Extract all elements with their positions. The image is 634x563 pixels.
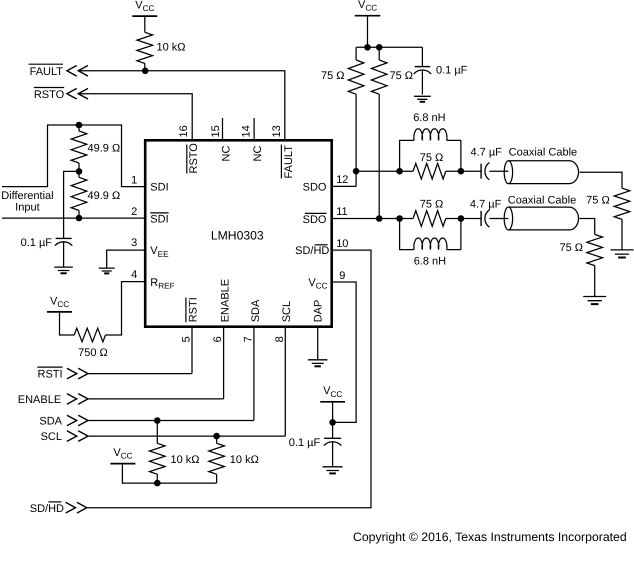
coaxial cable (SDO-) xyxy=(504,207,578,230)
junction VCC rail 1 xyxy=(364,44,371,51)
svg-text:4: 4 xyxy=(131,269,137,281)
svg-text:DAP: DAP xyxy=(313,300,325,323)
junction SCL pull-up tap xyxy=(213,433,220,440)
svg-text:SDI: SDI xyxy=(150,213,168,225)
input arrows SD/HD xyxy=(66,502,87,513)
pin 14 NC stub xyxy=(253,118,255,140)
svg-text:SDA: SDA xyxy=(39,416,62,428)
wire VCC to 10k resistor xyxy=(144,16,146,32)
wire SDO pull-up down to pin 12 xyxy=(355,94,357,186)
junction SDO- RL right xyxy=(458,215,465,222)
wire VCC rail for pull-ups xyxy=(122,464,216,484)
wire cap to ground xyxy=(332,442,334,466)
op-amp / IC U1 LMH0303 body xyxy=(145,140,332,326)
output arrows RSTO xyxy=(67,88,88,99)
junction pull-up rail xyxy=(154,480,161,487)
svg-text:FAULT: FAULT xyxy=(283,145,295,179)
resistor R 10 kOhm (SDA pull-up) xyxy=(150,443,166,474)
junction lower input / termination xyxy=(76,215,83,222)
wire FAULT to pin 13 xyxy=(78,71,285,141)
wire RSTI to pin 5 xyxy=(88,327,192,374)
svg-text:75 Ω: 75 Ω xyxy=(586,195,610,207)
resistor R 75 Ohm (SDO- termination) xyxy=(587,234,603,265)
wire cap to coax xyxy=(489,218,508,220)
inductor L 6.8 nH (SDO) xyxy=(400,140,415,171)
capacitor C 0.1 uF input midpoint xyxy=(56,237,72,239)
junction SDO node xyxy=(353,168,360,175)
svg-text:6: 6 xyxy=(212,336,224,342)
junction input top / R termination xyxy=(76,122,83,129)
svg-text:0.1 µF: 0.1 µF xyxy=(289,437,321,449)
capacitor C 0.1 uF (pull-up rail bypass) xyxy=(415,66,431,68)
svg-text:1: 1 xyxy=(131,174,137,186)
resistor R 10 kOhm (SCL pull-up) xyxy=(209,443,225,474)
ground (VEE) xyxy=(99,268,115,271)
svg-text:FAULT: FAULT xyxy=(30,66,64,78)
svg-text:7: 7 xyxy=(242,336,254,342)
svg-text:ENABLE: ENABLE xyxy=(18,394,61,406)
resistor 49.9 Ohm (upper termination) xyxy=(71,131,87,163)
junction VCC bypass node xyxy=(329,419,336,426)
svg-text:12: 12 xyxy=(336,174,348,186)
wire SDO- pull-up down to SDO- line xyxy=(378,94,380,218)
wire cap to ground xyxy=(421,71,423,95)
wire resistor to FAULT line xyxy=(144,63,146,70)
svg-text:8: 8 xyxy=(274,336,286,342)
wire coax to termination xyxy=(579,219,594,235)
wire VCC to node xyxy=(332,402,334,423)
ground (SDO- termination) xyxy=(583,297,606,301)
input arrows RSTI xyxy=(67,368,88,379)
junction SDO- node xyxy=(376,215,383,222)
svg-text:75 Ω: 75 Ω xyxy=(420,198,444,210)
svg-text:Input: Input xyxy=(15,201,39,213)
wire SDO- row from pin 11 xyxy=(332,218,413,220)
junction SDO RL left xyxy=(396,168,403,175)
svg-text:SCL: SCL xyxy=(281,301,293,322)
resistor R 10 kOhm (FAULT pull-up) xyxy=(137,32,153,63)
wire SCL to 10k xyxy=(216,436,218,443)
wire SDI input (lower) to pin 2 xyxy=(2,217,145,219)
resistor R 75 Ohm (SDO termination) xyxy=(614,188,630,219)
wire pin 3 VEE to ground xyxy=(107,250,146,268)
wire pin 12 stub xyxy=(332,185,356,187)
wire ENABLE to pin 6 xyxy=(88,327,224,399)
svg-text:Coaxial Cable: Coaxial Cable xyxy=(509,146,577,158)
svg-text:13: 13 xyxy=(271,125,283,137)
pin 15 NC stub xyxy=(222,118,224,140)
svg-text:Coaxial Cable: Coaxial Cable xyxy=(508,194,576,206)
wire cap to coax xyxy=(489,170,508,172)
ground (SDO termination) xyxy=(611,250,634,254)
junction SDO- RL left xyxy=(396,215,403,222)
svg-text:SDO: SDO xyxy=(303,182,327,194)
svg-text:49.9 Ω: 49.9 Ω xyxy=(88,143,121,155)
capacitor C 4.7 uF (SDO- AC coupling) xyxy=(480,211,482,226)
svg-text:75 Ω: 75 Ω xyxy=(321,70,345,82)
resistor 49.9 Ohm (lower termination) xyxy=(71,177,87,210)
svg-text:6.8 nH: 6.8 nH xyxy=(413,112,445,124)
svg-text:RSTI: RSTI xyxy=(187,297,199,322)
svg-text:3: 3 xyxy=(131,237,137,249)
ground (DAP) xyxy=(308,360,328,364)
svg-text:0.1 µF: 0.1 µF xyxy=(436,64,468,76)
wire SCL to pin 8 xyxy=(88,327,285,436)
resistor R 75 Ohm (SDO- series) xyxy=(413,211,446,227)
svg-text:ENABLE: ENABLE xyxy=(220,279,232,322)
junction termination midpoint xyxy=(76,168,83,175)
svg-text:RSTO: RSTO xyxy=(34,89,65,101)
wire termination to ground xyxy=(621,219,623,249)
wire SDI input (upper) to pin 1 xyxy=(2,125,145,187)
wire 10k to VCC rail xyxy=(156,474,158,483)
svg-text:10 kΩ: 10 kΩ xyxy=(230,454,259,466)
ground (rail bypass) xyxy=(414,96,431,99)
resistor R 75 Ohm (SDO pull-up) xyxy=(355,47,357,60)
svg-text:5: 5 xyxy=(181,336,193,342)
svg-text:75 Ω: 75 Ω xyxy=(420,152,444,164)
svg-text:LMH0303: LMH0303 xyxy=(211,229,264,243)
svg-text:SD/HD: SD/HD xyxy=(295,245,329,257)
wire midpoint to bypass cap xyxy=(64,171,79,238)
svg-text:4.7 µF: 4.7 µF xyxy=(470,198,502,210)
input arrows SDA xyxy=(67,415,88,426)
capacitor C 0.1 uF (VCC bypass) xyxy=(324,437,341,439)
wire VCC down xyxy=(367,16,369,48)
svg-text:NC: NC xyxy=(252,146,264,162)
resistor R 75 Ohm (SDO series) xyxy=(413,163,446,179)
cap 0.1uF top right xyxy=(421,47,423,66)
output arrows FAULT xyxy=(67,66,88,77)
wire cap to ground xyxy=(63,242,65,267)
coaxial cable (SDO) xyxy=(504,161,578,184)
svg-text:SDA: SDA xyxy=(250,299,262,322)
ground (VCC bypass) xyxy=(323,467,343,471)
wire pin 9 VCC xyxy=(332,282,356,422)
wire coax to termination xyxy=(579,172,622,188)
wire termination to ground xyxy=(594,266,596,297)
junction FAULT / 10k xyxy=(142,68,149,75)
power symbol VCC (RREF bias) xyxy=(47,311,72,313)
junction SDO RL right xyxy=(458,168,465,175)
power symbol VCC (pin 9 bypass) xyxy=(320,401,345,403)
wire VCC to 750 resistor xyxy=(60,312,75,335)
resistor R 750 Ohm (RREF) xyxy=(74,328,105,342)
svg-text:4.7 µF: 4.7 µF xyxy=(470,146,502,158)
svg-text:75 Ω: 75 Ω xyxy=(559,242,583,254)
junction VCC rail 2 xyxy=(376,44,383,51)
svg-text:49.9 Ω: 49.9 Ω xyxy=(88,190,121,202)
input arrows SCL xyxy=(67,431,88,442)
svg-text:NC: NC xyxy=(220,146,232,162)
svg-text:SCL: SCL xyxy=(41,431,62,443)
wire 750 resistor to pin 4 xyxy=(106,282,146,335)
svg-text:11: 11 xyxy=(336,206,347,218)
svg-text:Copyright © 2016, Texas Instru: Copyright © 2016, Texas Instruments Inco… xyxy=(353,530,627,544)
inductor L 6.8 nH (SDO-) xyxy=(400,219,415,250)
wire DAP to ground xyxy=(317,327,319,360)
wire node to cap xyxy=(332,422,334,438)
svg-text:10 kΩ: 10 kΩ xyxy=(171,454,200,466)
svg-text:75 Ω: 75 Ω xyxy=(390,70,414,82)
junction SDA pull-up tap xyxy=(154,417,161,424)
svg-text:SDI: SDI xyxy=(150,182,168,194)
svg-text:RSTI: RSTI xyxy=(38,369,63,381)
svg-text:RSTO: RSTO xyxy=(188,143,200,174)
power symbol VCC (10k pull-up, FAULT) xyxy=(132,15,157,17)
wire VCC rail xyxy=(356,46,422,48)
svg-text:2: 2 xyxy=(131,206,137,218)
wire 10k to VCC rail xyxy=(216,474,218,483)
wire RSTO to pin 16 xyxy=(78,94,192,141)
wire SDA to 10k xyxy=(156,421,158,444)
svg-text:16: 16 xyxy=(178,125,190,137)
svg-text:15: 15 xyxy=(210,125,222,137)
power symbol VCC (I2C pull-ups) xyxy=(110,463,135,465)
capacitor C 4.7 uF (SDO AC coupling) xyxy=(480,164,482,179)
svg-text:9: 9 xyxy=(339,270,345,282)
wire SDO row xyxy=(356,170,413,172)
wire SD/HD to pin 10 xyxy=(87,250,371,508)
svg-text:Differential: Differential xyxy=(1,190,53,202)
svg-text:SD/HD: SD/HD xyxy=(30,503,64,515)
svg-text:0.1 µF: 0.1 µF xyxy=(21,237,53,249)
svg-text:SDO: SDO xyxy=(303,214,327,226)
svg-text:10: 10 xyxy=(336,238,348,250)
power symbol VCC (output pull-ups) xyxy=(355,15,381,17)
resistor R 75 Ohm (SDO- pull-up) xyxy=(378,47,380,60)
wire SDA to pin 7 xyxy=(88,327,254,421)
ground (input cap) xyxy=(54,267,73,270)
svg-text:6.8 nH: 6.8 nH xyxy=(414,255,446,267)
svg-text:10 kΩ: 10 kΩ xyxy=(157,42,186,54)
svg-text:14: 14 xyxy=(241,125,253,137)
svg-text:750 Ω: 750 Ω xyxy=(78,347,108,359)
input arrows ENABLE xyxy=(67,394,88,405)
